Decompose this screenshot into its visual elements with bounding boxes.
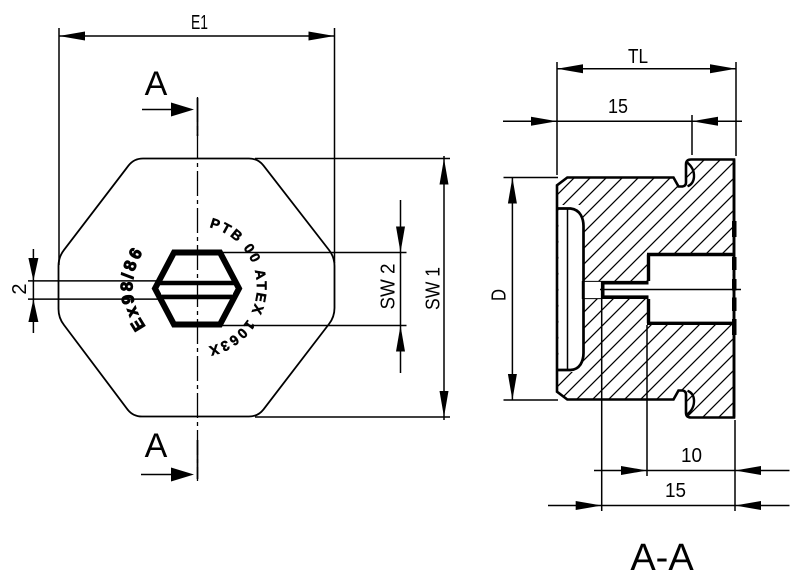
dimension E1: [59, 35, 335, 37]
front recess cavity (white): [559, 205, 583, 372]
svg-text:A-A: A-A: [630, 537, 694, 579]
thread nubs on right edge: [732, 221, 737, 335]
svg-text:D: D: [489, 289, 511, 301]
section line A arrows: [142, 109, 186, 111]
hex socket counterbore (white): [649, 255, 733, 324]
hex head outline (front view): [59, 159, 335, 417]
slot stem outline (thick): [603, 283, 649, 298]
slot sides thin: [583, 280, 601, 282]
body cross-section with hatching: [557, 160, 734, 418]
hex socket recess (thick): [155, 253, 239, 325]
right edge line: [733, 160, 736, 418]
recess outline: [558, 209, 584, 371]
svg-text:TL: TL: [628, 46, 648, 68]
thread runout curl top: [687, 162, 695, 186]
svg-text:A: A: [145, 65, 168, 103]
svg-text:15: 15: [665, 480, 686, 502]
svg-text:Ex98/86: Ex98/86: [117, 243, 149, 335]
dimension TL: [557, 68, 736, 70]
slot white band: [161, 285, 233, 294]
recess face edge line: [567, 210, 569, 370]
section centerline (horizontal): [600, 289, 741, 291]
slot extension lines (left): [28, 280, 158, 282]
slot channel (white): [581, 281, 649, 299]
dimension 15 (bottom): [548, 505, 790, 507]
dimension SW1: [255, 158, 450, 160]
dimension 15 (top): [503, 120, 742, 122]
svg-text:SW 2: SW 2: [378, 264, 400, 310]
svg-text:2: 2: [9, 283, 31, 294]
slot through recess bottom: [582, 281, 585, 299]
thread runout curl bottom: [687, 391, 695, 415]
svg-text:A: A: [145, 427, 168, 465]
svg-text:E1: E1: [191, 12, 208, 34]
dimension 10 (bottom): [594, 470, 790, 472]
svg-text:10: 10: [681, 445, 702, 467]
slot upper edge: [157, 281, 237, 285]
centerline (vertical, left view): [197, 97, 199, 481]
cutting plane stubs: [197, 98, 199, 136]
dimension 2 (slot width): [32, 249, 34, 333]
svg-text:SW 1: SW 1: [423, 267, 445, 310]
dimension SW2: [222, 252, 407, 254]
dimension D: [504, 177, 559, 179]
E1 extension lines: [58, 28, 60, 265]
extension lines to bottom dims: [601, 299, 603, 511]
slot lower edge: [157, 295, 237, 300]
svg-text:15: 15: [608, 96, 628, 118]
counterbore outline: [647, 255, 733, 324]
